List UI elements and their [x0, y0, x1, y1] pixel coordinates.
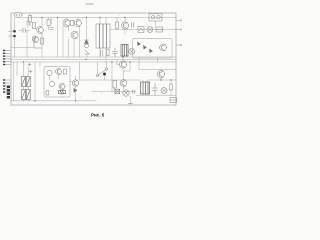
node dots	[23, 17, 172, 102]
capacitor C1	[23, 28, 25, 33]
wire S2 down	[86, 54, 88, 57]
terminal circle right 3	[180, 44, 182, 46]
sub-unit enclosure left	[44, 67, 70, 98]
motor M1	[123, 90, 129, 96]
fuse FU1	[156, 27, 163, 32]
bridge VD4 dark	[59, 91, 66, 94]
diode chain VD3	[138, 42, 153, 53]
wire VT9 leads	[70, 62, 92, 101]
wire col x79	[79, 27, 81, 57]
wire col x35	[34, 62, 36, 101]
transistor VT9	[72, 80, 78, 86]
terminal circle right 2	[180, 29, 182, 31]
diode VD1	[85, 40, 89, 44]
wire T1 bottom	[100, 48, 106, 62]
terminal circle right 1	[180, 20, 182, 22]
wire jack down	[14, 38, 16, 58]
capacitor C10	[50, 28, 54, 30]
transformer T1 core	[96, 24, 110, 48]
wire top rail	[22, 17, 176, 19]
page header dash	[86, 3, 93, 5]
wire col x74	[73, 39, 75, 57]
resistor R1	[29, 16, 32, 23]
wire branch	[26, 30, 28, 57]
cable ticks 1	[3, 50, 5, 65]
transformer T2	[141, 82, 150, 94]
wire col x112	[111, 62, 113, 92]
wire VT10 leads	[117, 57, 123, 71]
connector block XS1	[7, 86, 10, 99]
wire bus A	[11, 56, 176, 58]
transistor VT2	[63, 19, 70, 26]
wire T2 leads	[143, 80, 147, 96]
diode VD6	[74, 89, 77, 93]
wire mid drop	[41, 45, 43, 57]
left cable bundle 2	[4, 80, 12, 92]
wire T1 top	[100, 18, 106, 25]
wire col x63	[62, 26, 64, 57]
jack X1 contacts	[9, 30, 16, 37]
resistor R3	[41, 38, 44, 44]
wire VT11 leads	[115, 71, 130, 92]
wire col x130	[129, 62, 131, 71]
resistor R8	[46, 91, 49, 96]
box VD5	[115, 89, 120, 94]
wire bottom rail left	[11, 100, 96, 102]
wire P1 drop	[155, 21, 157, 27]
wire left partial rail	[11, 47, 33, 49]
electrolytic C2	[33, 36, 42, 48]
transistor VT1b	[33, 37, 39, 43]
wire R10 leads	[170, 80, 172, 96]
wire VT1 emitter	[41, 34, 43, 46]
transistor VT12	[157, 70, 164, 77]
transistor VT4	[71, 31, 78, 38]
polarity mark 2	[29, 70, 32, 73]
wire VD1	[86, 18, 88, 45]
cable ticks 2	[3, 79, 5, 92]
wire right rail mid	[110, 29, 176, 31]
microphone B1	[14, 12, 22, 17]
resistor R4	[47, 20, 50, 26]
wire VT2 top	[67, 18, 78, 20]
wire R4 leads	[48, 18, 50, 31]
wire col x40	[39, 62, 41, 67]
capacitor C5	[153, 83, 158, 96]
winding L4	[47, 70, 52, 75]
wire VT12 leads	[148, 70, 176, 81]
winding L3	[161, 88, 167, 94]
scan noise	[15, 14, 172, 100]
wire low rail mid	[92, 91, 136, 93]
trimmer RP1	[22, 77, 31, 87]
wire col x130 low	[130, 96, 132, 105]
svg-text:Рис. 5: Рис. 5	[91, 113, 105, 118]
sub-unit enclosure right	[133, 39, 173, 59]
wire C1 link	[19, 29, 30, 31]
resistor R10	[170, 84, 173, 90]
wire VT5 links	[117, 18, 125, 35]
wire col x57	[57, 18, 59, 58]
transistor VT7	[56, 69, 62, 75]
polarity mark 1	[28, 63, 31, 66]
winding L1	[129, 49, 135, 55]
wire VT1 collector	[41, 18, 43, 27]
fuse box FU2	[170, 98, 177, 103]
wire bottom rail right	[136, 95, 176, 97]
switch SA1	[96, 68, 107, 77]
resistor R11	[107, 50, 110, 56]
terminal stub right 2	[176, 29, 180, 31]
capacitor C8	[101, 50, 103, 56]
wire R1 leads	[29, 13, 31, 26]
wire input drop	[14, 18, 16, 29]
capacitor C6	[133, 90, 135, 93]
resistor R9	[113, 81, 117, 89]
wire col x13.5	[13, 62, 15, 101]
wire col x51	[51, 18, 53, 25]
wire bus C	[11, 61, 176, 63]
capacitor C9	[113, 48, 118, 57]
wire col x17	[16, 62, 18, 76]
resistor R6	[116, 22, 119, 28]
wire col x68	[68, 27, 70, 57]
schematic frame	[11, 13, 176, 105]
terminal stub right 1	[176, 20, 180, 22]
transistor VT11	[120, 80, 127, 87]
resistor R7	[64, 69, 67, 74]
transistor VT10	[119, 61, 126, 68]
transistor VT5	[121, 22, 128, 29]
wire sub-unit bottom	[139, 58, 176, 70]
left cable bundle 1	[4, 51, 12, 65]
resistor R2	[33, 23, 36, 29]
meter box P1	[149, 14, 162, 22]
transistor VT3	[74, 19, 81, 26]
terminal stub right 3	[176, 44, 180, 46]
choke L2 dark core	[121, 45, 128, 57]
wire SA1 leads	[98, 62, 107, 80]
wire mid rail right	[92, 79, 140, 81]
junction tick bottom	[129, 103, 133, 105]
wire C7 link	[27, 19, 29, 29]
wire inside links	[50, 75, 63, 98]
trimmer RP2	[22, 90, 31, 100]
wire RP1 leads	[24, 62, 29, 90]
wire bus B	[11, 59, 176, 61]
transistor VT8	[59, 84, 65, 90]
wire RP2 leads	[24, 100, 29, 101]
capacitor C7	[27, 21, 29, 26]
switch S2	[85, 44, 90, 54]
lamp HL1	[147, 27, 153, 33]
transistor VT1	[37, 27, 44, 34]
rectifier box VD2	[138, 27, 144, 33]
capacitor C3	[132, 23, 134, 28]
resistor R5	[70, 20, 74, 25]
transistor VT6	[160, 44, 167, 51]
winding L5	[49, 81, 54, 86]
